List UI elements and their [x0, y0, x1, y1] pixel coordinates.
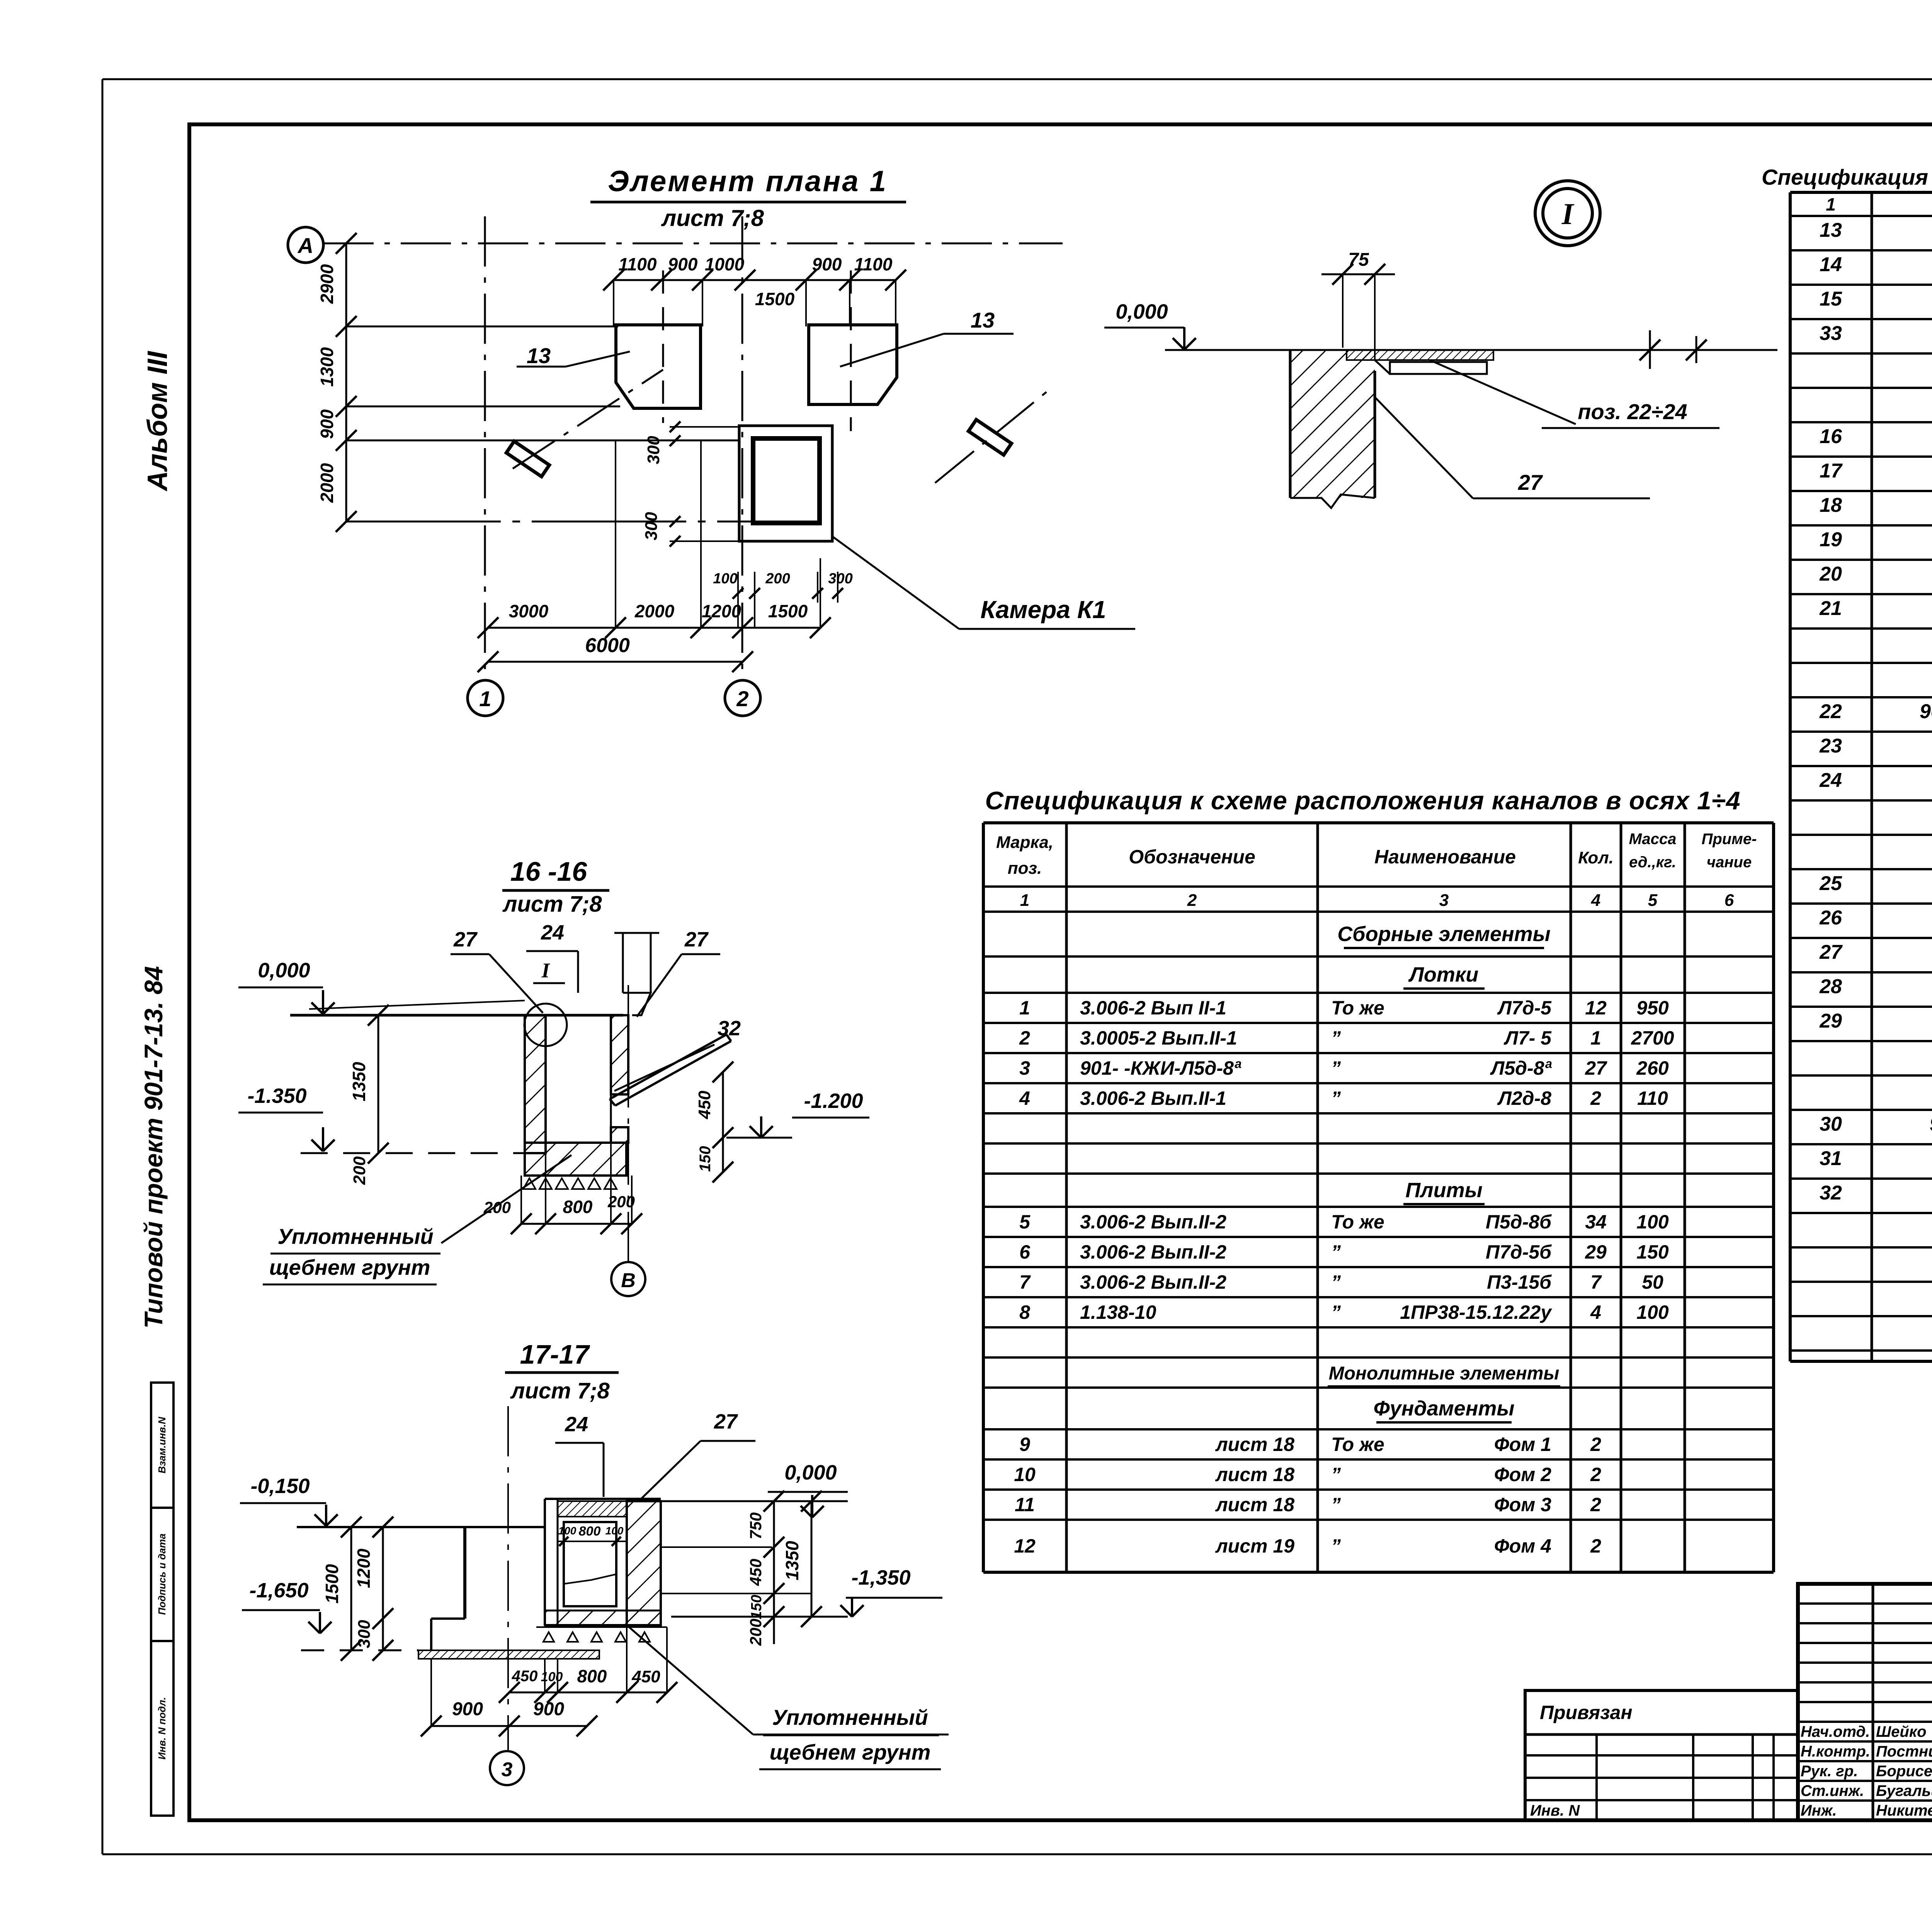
svg-text:26: 26	[1819, 907, 1842, 929]
svg-text:901-7-13.84 -КЖК-Щ1: 901-7-13.84 -КЖК-Щ1	[1920, 700, 1932, 723]
svg-text:Плиты: Плиты	[1405, 1179, 1483, 1202]
svg-text:200: 200	[765, 571, 790, 587]
svg-text:1200: 1200	[354, 1548, 374, 1588]
svg-text:Постников: Постников	[1876, 1743, 1932, 1760]
svg-text:1100: 1100	[619, 254, 657, 274]
svg-text:13: 13	[527, 343, 551, 368]
svg-text:3.006-2 Вып.II-2: 3.006-2 Вып.II-2	[1080, 1271, 1226, 1293]
svg-text:100: 100	[713, 571, 737, 587]
svg-text:17-17: 17-17	[520, 1339, 590, 1369]
svg-text:27: 27	[1585, 1057, 1607, 1079]
svg-text:20: 20	[1819, 563, 1842, 585]
plan line y845	[346, 326, 618, 328]
svg-text:Спецификация к схеме расположе: Спецификация к схеме расположения канало…	[1762, 165, 1932, 190]
svg-text:2: 2	[1187, 891, 1197, 910]
svg-text:1350: 1350	[782, 1541, 802, 1580]
17-17 right horizontal lines	[661, 1500, 848, 1502]
svg-text:450: 450	[747, 1559, 765, 1586]
svg-text:34: 34	[1585, 1211, 1607, 1233]
svg-text:16: 16	[1820, 425, 1842, 448]
svg-text:27: 27	[1518, 470, 1543, 494]
svg-text:0,000: 0,000	[1116, 300, 1168, 323]
svg-text:100: 100	[558, 1525, 577, 1537]
svg-text:28: 28	[1819, 975, 1842, 998]
plan line y1350	[346, 521, 819, 523]
svg-text:8: 8	[1019, 1301, 1030, 1323]
16-16 bottom slab	[525, 1143, 626, 1176]
detail circle at wall top	[524, 1004, 567, 1046]
svg-text:50: 50	[1642, 1271, 1663, 1293]
svg-text:100: 100	[605, 1525, 624, 1537]
svg-text:2: 2	[1590, 1535, 1601, 1557]
svg-text:12: 12	[1014, 1535, 1036, 1557]
svg-text:лист 18: лист 18	[1215, 1464, 1295, 1485]
title block outer	[1798, 1584, 1932, 1820]
detail I marker circle	[1535, 181, 1600, 246]
svg-text:”: ”	[1331, 1494, 1341, 1515]
svg-text:200: 200	[350, 1156, 369, 1185]
svg-text:1300: 1300	[317, 347, 337, 387]
17-17 crushed stone below	[536, 1626, 667, 1628]
16-16 ground line	[290, 1014, 623, 1017]
svg-text:2700: 2700	[1631, 1027, 1674, 1049]
plan top dimensions	[614, 279, 896, 281]
svg-text:щебнем грунт: щебнем грунт	[770, 1740, 931, 1764]
svg-text:3: 3	[502, 1758, 513, 1781]
svg-text:150: 150	[748, 1595, 765, 1619]
svg-text:Привязан: Привязан	[1540, 1702, 1633, 1723]
svg-text:5: 5	[1648, 891, 1658, 910]
svg-text:1000: 1000	[705, 254, 745, 274]
svg-text:Ст.инж.: Ст.инж.	[1801, 1782, 1864, 1799]
svg-text:13: 13	[971, 308, 995, 332]
svg-text:1ПР38-15.12.22у: 1ПР38-15.12.22у	[1400, 1301, 1552, 1323]
plan left dimension chain	[345, 243, 347, 522]
foundation block 13 left	[616, 325, 701, 408]
svg-text:27: 27	[714, 1410, 738, 1433]
svg-text:Инв. N подл.: Инв. N подл.	[156, 1697, 168, 1760]
svg-text:25: 25	[1819, 872, 1842, 895]
svg-text:24: 24	[541, 921, 564, 944]
svg-text:450: 450	[695, 1091, 714, 1120]
svg-text:лист 19: лист 19	[1215, 1535, 1295, 1557]
svg-text:-1.350: -1.350	[247, 1084, 306, 1108]
svg-text:2000: 2000	[634, 601, 675, 621]
axis line A	[323, 243, 1063, 245]
svg-text:Рук. гр.: Рук. гр.	[1801, 1763, 1858, 1780]
svg-text:2: 2	[736, 686, 748, 711]
svg-text:800: 800	[579, 1524, 601, 1539]
17-17 inner opening	[564, 1522, 616, 1606]
svg-text:29: 29	[1585, 1241, 1607, 1263]
svg-text:-1.200: -1.200	[804, 1089, 863, 1113]
svg-text:щебнем грунт: щебнем грунт	[269, 1255, 430, 1279]
svg-text:260: 260	[1636, 1057, 1669, 1079]
svg-text:9: 9	[1019, 1434, 1030, 1455]
svg-text:П3-15б: П3-15б	[1487, 1271, 1552, 1293]
svg-text:5: 5	[1019, 1211, 1031, 1233]
svg-text:Уплотненный: Уплотненный	[277, 1224, 433, 1249]
svg-text:750: 750	[747, 1512, 765, 1539]
plan line y1140	[346, 440, 740, 442]
svg-text:Монолитные элементы: Монолитные элементы	[1329, 1363, 1560, 1384]
svg-text:300: 300	[355, 1620, 374, 1648]
17-17 bottom slab	[545, 1611, 661, 1625]
axis circle A	[288, 227, 323, 263]
axis circle 1	[468, 680, 503, 716]
outer frame top	[102, 78, 1932, 80]
svg-text:32: 32	[1820, 1182, 1842, 1204]
riser above right wall	[622, 933, 624, 993]
svg-text:33: 33	[1820, 322, 1842, 345]
svg-text:Кол.: Кол.	[1578, 848, 1614, 867]
svg-text:Обозначение: Обозначение	[1129, 846, 1255, 868]
svg-text:2: 2	[1590, 1434, 1601, 1455]
svg-text:22: 22	[1819, 700, 1842, 723]
svg-text:900: 900	[812, 254, 842, 274]
svg-text:900: 900	[668, 254, 698, 274]
foundation block 13 right	[809, 325, 897, 404]
svg-text:Подпись и дата: Подпись и дата	[156, 1534, 168, 1615]
svg-text:Никитенко: Никитенко	[1876, 1802, 1932, 1819]
17-17 right vertical dims	[773, 1501, 775, 1644]
svg-text:450: 450	[512, 1668, 538, 1685]
svg-text:лист 18: лист 18	[1215, 1494, 1295, 1515]
dim 75	[1321, 274, 1395, 275]
17-17 left vertical dims	[350, 1527, 352, 1650]
svg-text:2000: 2000	[317, 463, 337, 503]
svg-text:1: 1	[1590, 1027, 1601, 1049]
node detail wall hatched	[1290, 350, 1375, 498]
svg-text:23: 23	[1819, 735, 1842, 757]
svg-text:100: 100	[1636, 1301, 1669, 1323]
svg-text:3000: 3000	[509, 601, 549, 621]
axis circle 3	[490, 1751, 524, 1785]
svg-text:300: 300	[828, 571, 852, 587]
svg-text:1500: 1500	[755, 289, 795, 309]
svg-text:Взам.инв.N: Взам.инв.N	[156, 1417, 168, 1473]
svg-text:поз. 22÷24: поз. 22÷24	[1578, 399, 1687, 424]
svg-text:7: 7	[1590, 1271, 1602, 1293]
svg-text:110: 110	[1637, 1087, 1668, 1109]
svg-text:Спецификация к схеме расположе: Спецификация к схеме расположения канало…	[985, 786, 1740, 815]
svg-text:1100: 1100	[854, 254, 893, 274]
17-17 foundation box	[627, 1501, 661, 1625]
svg-text:лист 7;8: лист 7;8	[502, 892, 602, 917]
svg-text:6: 6	[1019, 1241, 1031, 1263]
axis 3 line	[507, 1406, 509, 1750]
node detail ground line	[1165, 349, 1777, 351]
svg-text:3.006-2 Вып.II-1: 3.006-2 Вып.II-1	[1080, 1087, 1226, 1109]
svg-text:лист 7;8: лист 7;8	[661, 205, 764, 231]
16-16 crushed stone	[525, 1175, 626, 1177]
mid spec table grid	[983, 821, 1774, 824]
svg-text:16 -16: 16 -16	[510, 856, 588, 887]
channel below plate	[1390, 362, 1487, 374]
svg-text:12: 12	[1585, 997, 1607, 1019]
svg-text:То же: То же	[1331, 997, 1384, 1019]
svg-text:А: А	[297, 233, 313, 258]
inner main frame	[189, 124, 1932, 1820]
svg-text:Фом 2: Фом 2	[1494, 1464, 1551, 1485]
svg-text:То же: То же	[1331, 1434, 1384, 1455]
svg-text:Типовой проект 901-7-13. 84: Типовой проект 901-7-13. 84	[139, 966, 168, 1328]
svg-text:100: 100	[541, 1670, 563, 1684]
steel plate pos.22-24	[1347, 350, 1493, 360]
svg-text:Л7- 5: Л7- 5	[1503, 1027, 1552, 1049]
svg-text:24: 24	[1819, 769, 1842, 792]
svg-text:2900: 2900	[317, 264, 337, 304]
svg-text:”: ”	[1331, 1027, 1341, 1049]
svg-text:Фундаменты: Фундаменты	[1374, 1397, 1515, 1420]
svg-text:”: ”	[1331, 1087, 1341, 1109]
svg-text:10: 10	[1014, 1464, 1036, 1485]
svg-text:4: 4	[1019, 1087, 1030, 1109]
privyazan block	[1525, 1690, 1798, 1820]
svg-text:лист 7;8: лист 7;8	[510, 1378, 610, 1403]
svg-text:450: 450	[631, 1667, 660, 1686]
svg-text:150: 150	[697, 1146, 714, 1172]
svg-text:Альбом III: Альбом III	[142, 350, 173, 491]
svg-text:Н.контр.: Н.контр.	[1801, 1743, 1870, 1760]
svg-text:950: 950	[1636, 997, 1669, 1019]
svg-text:”: ”	[1331, 1241, 1341, 1263]
svg-text:Элемент плана 1: Элемент плана 1	[608, 165, 888, 198]
svg-text:300: 300	[642, 512, 661, 540]
axis line 2	[742, 216, 743, 680]
svg-text:Сборные элементы: Сборные элементы	[1337, 922, 1551, 946]
right end marks of plate	[1649, 330, 1651, 369]
17-17 thin slab left	[418, 1650, 599, 1659]
svg-text:3.006-2 Вып.II-2: 3.006-2 Вып.II-2	[1080, 1241, 1226, 1263]
svg-text:1500: 1500	[322, 1564, 342, 1604]
16-16 bottom dims	[521, 1223, 632, 1225]
svg-text:900: 900	[317, 409, 337, 439]
svg-text:-1,650: -1,650	[249, 1579, 308, 1602]
svg-text:1.138-10: 1.138-10	[1080, 1301, 1156, 1323]
svg-text:2: 2	[1590, 1464, 1601, 1485]
svg-text:75: 75	[1348, 250, 1369, 270]
svg-text:24: 24	[565, 1413, 588, 1436]
svg-text:300: 300	[644, 436, 663, 464]
16-16 channel inner lines	[544, 1015, 547, 1143]
svg-text:Л2д-8: Л2д-8	[1497, 1087, 1551, 1109]
svg-text:17: 17	[1820, 460, 1843, 482]
16-16 right wall upper	[611, 1015, 628, 1094]
svg-text:Бугальцева: Бугальцева	[1876, 1782, 1932, 1799]
svg-text:Л7д-5: Л7д-5	[1497, 997, 1552, 1019]
svg-text:поз.: поз.	[1008, 859, 1042, 878]
svg-text:П5д-8б: П5д-8б	[1486, 1211, 1552, 1233]
svg-text:Фом 4: Фом 4	[1494, 1535, 1551, 1557]
compacted gravel label (17-17)	[629, 1627, 753, 1735]
svg-text:13: 13	[1820, 219, 1842, 241]
svg-text:Фом 3: Фом 3	[1494, 1494, 1551, 1515]
svg-text:31: 31	[1820, 1147, 1842, 1170]
svg-text:Приме-: Приме-	[1702, 831, 1757, 848]
16-16 right wall lower	[611, 1127, 628, 1143]
svg-text:3: 3	[1019, 1057, 1030, 1079]
svg-text:901-7-13.84-КЖИ-Р1: 901-7-13.84-КЖИ-Р1	[1930, 1113, 1932, 1135]
17-17 top slab hatch	[558, 1501, 627, 1517]
svg-text:Марка,: Марка,	[996, 833, 1053, 852]
svg-text:4: 4	[1591, 891, 1600, 910]
17-17 ground step	[463, 1527, 466, 1619]
svg-text:21: 21	[1819, 597, 1842, 620]
axis line 1	[484, 216, 486, 680]
svg-text:1: 1	[479, 686, 491, 711]
svg-text:Нач.отд.: Нач.отд.	[1801, 1723, 1870, 1740]
svg-text:100: 100	[1636, 1211, 1669, 1233]
svg-text:14: 14	[1820, 253, 1842, 276]
svg-text:6000: 6000	[585, 634, 630, 657]
svg-text:11: 11	[1015, 1494, 1035, 1515]
left margin stamp strip	[151, 1383, 173, 1816]
svg-text:900: 900	[533, 1699, 564, 1719]
outer frame bottom	[102, 1853, 1932, 1855]
svg-text:”: ”	[1331, 1057, 1341, 1079]
svg-text:200: 200	[607, 1193, 635, 1211]
right spec table grid	[1790, 191, 1932, 194]
svg-text:Лотки: Лотки	[1408, 963, 1478, 986]
17-17 left ground line	[297, 1526, 545, 1528]
svg-text:Уплотненный: Уплотненный	[772, 1705, 928, 1729]
svg-text:800: 800	[577, 1666, 607, 1686]
section marker left	[513, 370, 663, 469]
svg-text:П7д-5б: П7д-5б	[1486, 1241, 1552, 1263]
svg-text:1: 1	[1826, 194, 1836, 214]
svg-text:Л5д-8ª: Л5д-8ª	[1490, 1057, 1552, 1079]
svg-text:30: 30	[1820, 1113, 1842, 1135]
svg-text:4: 4	[1590, 1301, 1601, 1323]
svg-text:2: 2	[1590, 1494, 1601, 1515]
svg-text:-1,350: -1,350	[851, 1566, 910, 1589]
svg-text:7: 7	[1019, 1271, 1031, 1293]
svg-text:2: 2	[1590, 1087, 1601, 1109]
svg-text:3.006-2 Вып.II-2: 3.006-2 Вып.II-2	[1080, 1211, 1226, 1233]
svg-text:В: В	[621, 1269, 636, 1292]
svg-text:27: 27	[684, 928, 709, 951]
17-17 bottom dims	[509, 1692, 667, 1694]
svg-text:3: 3	[1439, 891, 1449, 910]
svg-text:19: 19	[1820, 528, 1842, 551]
small dims 300	[670, 426, 739, 428]
svg-text:1350: 1350	[349, 1062, 369, 1101]
dims 450 150 right	[722, 1072, 724, 1172]
svg-text:3.006-2 Вып II-1: 3.006-2 Вып II-1	[1080, 997, 1226, 1019]
plan line y1052	[346, 406, 620, 408]
svg-text:”: ”	[1331, 1535, 1341, 1557]
svg-text:800: 800	[563, 1197, 593, 1217]
svg-text:чание: чание	[1707, 854, 1752, 871]
svg-text:”: ”	[1331, 1464, 1341, 1485]
svg-text:901- -КЖИ-Л5д-8ª: 901- -КЖИ-Л5д-8ª	[1080, 1057, 1242, 1079]
svg-text:1200: 1200	[702, 601, 742, 621]
axis B circle	[611, 1262, 645, 1296]
svg-text:1: 1	[1019, 997, 1030, 1019]
camera K1 inner	[753, 438, 820, 523]
svg-text:0,000: 0,000	[784, 1461, 837, 1484]
svg-text:То же: То же	[1331, 1211, 1384, 1233]
svg-text:Инж.: Инж.	[1801, 1802, 1837, 1819]
svg-text:-0,150: -0,150	[250, 1475, 310, 1498]
camera K1 outer	[739, 426, 832, 541]
svg-text:2: 2	[1019, 1027, 1030, 1049]
axis circle 2	[725, 680, 760, 716]
svg-text:6: 6	[1725, 891, 1734, 910]
leader 27 (node detail)	[1376, 398, 1473, 498]
svg-text:18: 18	[1820, 494, 1842, 516]
signature grid	[1872, 1584, 1874, 1820]
svg-text:Инв. N: Инв. N	[1530, 1802, 1580, 1819]
svg-text:3.0005-2 Вып.II-1: 3.0005-2 Вып.II-1	[1080, 1027, 1237, 1049]
section marker right	[935, 388, 1051, 483]
svg-text:200: 200	[483, 1198, 511, 1216]
svg-text:Шейко: Шейко	[1876, 1723, 1927, 1740]
svg-text:Масса: Масса	[1629, 831, 1677, 848]
svg-text:”: ”	[1331, 1271, 1341, 1293]
svg-text:I: I	[541, 959, 550, 982]
svg-text:27: 27	[453, 928, 478, 951]
svg-text:ед.,кг.: ед.,кг.	[1629, 854, 1676, 871]
svg-text:”: ”	[1331, 1301, 1341, 1323]
svg-text:0,000: 0,000	[258, 959, 310, 982]
svg-text:27: 27	[1819, 941, 1843, 963]
svg-text:900: 900	[452, 1699, 483, 1719]
16-16 left wall	[525, 1015, 546, 1153]
svg-text:Камера К1: Камера К1	[980, 596, 1106, 623]
svg-text:Наименование: Наименование	[1374, 846, 1516, 868]
svg-text:I: I	[1561, 197, 1575, 231]
svg-text:Борисенко: Борисенко	[1876, 1763, 1932, 1780]
leader pos.22-24	[1430, 360, 1576, 424]
svg-text:1: 1	[1020, 891, 1029, 910]
plan small dims 100 200 300	[737, 572, 739, 628]
svg-text:29: 29	[1819, 1010, 1842, 1032]
svg-text:150: 150	[1636, 1241, 1669, 1263]
plan bottom dimensions row	[488, 627, 820, 629]
outer frame left	[102, 79, 104, 1854]
leader camera K1	[833, 537, 959, 629]
svg-text:200: 200	[747, 1619, 765, 1646]
svg-text:15: 15	[1820, 288, 1842, 310]
svg-text:лист 18: лист 18	[1215, 1434, 1295, 1455]
dim 1350	[378, 1015, 379, 1153]
svg-text:1500: 1500	[768, 601, 808, 621]
plan 6000 dimension	[488, 661, 743, 663]
svg-text:Фом 1: Фом 1	[1494, 1434, 1551, 1455]
